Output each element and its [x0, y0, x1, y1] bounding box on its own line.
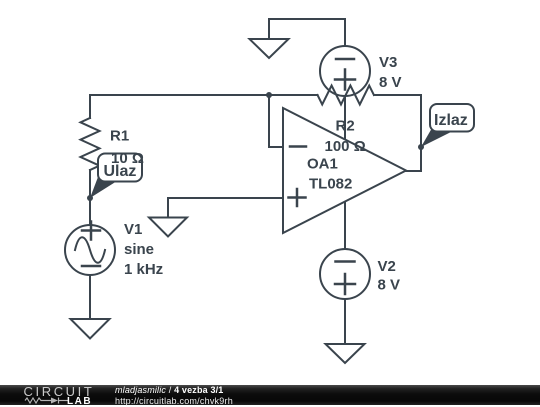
node Izlaz junction [418, 144, 424, 150]
CircuitLab logo [24, 384, 95, 399]
flag Ulaz [90, 154, 142, 199]
flag Izlaz [421, 104, 474, 147]
wire inverting input [269, 95, 283, 147]
voltage source V3 [320, 46, 370, 96]
wire V2 bottom lead [344, 299, 346, 343]
svg-text:V2: V2 [378, 258, 396, 275]
wire R1 top lead [89, 95, 91, 118]
svg-text:8 V: 8 V [378, 277, 401, 294]
wire op-amp V- to V2 [344, 202, 346, 249]
wire top-ground drop [268, 19, 270, 39]
voltage source V2 [320, 249, 370, 299]
ground (below V1) [71, 319, 110, 339]
ground (non-inverting input) [149, 218, 187, 237]
svg-text:10 Ω: 10 Ω [111, 150, 144, 167]
wire non-inverting input [168, 198, 283, 217]
wire top rail [269, 18, 345, 20]
svg-text:sine: sine [124, 241, 154, 258]
svg-text:Izlaz: Izlaz [434, 112, 468, 129]
ground (top, op-amp bias) [250, 39, 289, 58]
svg-text:TL082: TL082 [309, 176, 352, 193]
svg-text:R1: R1 [110, 128, 129, 145]
footer bar [0, 385, 540, 406]
wire output branch [406, 95, 421, 171]
wire V3 to op-amp V+ pin [344, 96, 346, 139]
wire V1 bottom lead [89, 275, 91, 318]
resistor R2 [318, 86, 374, 105]
ground (below V2) [326, 344, 365, 363]
wire V3 top lead [344, 19, 346, 46]
wire R1 bottom lead [89, 170, 91, 225]
resistor R1 [81, 118, 100, 170]
svg-text:V3: V3 [379, 54, 397, 71]
svg-text:OA1: OA1 [307, 156, 338, 173]
wire R2 right lead [374, 94, 421, 96]
svg-text:V1: V1 [124, 221, 142, 238]
svg-text:8 V: 8 V [379, 74, 402, 91]
node Ulaz junction [87, 195, 93, 201]
voltage source V1 [65, 225, 115, 275]
op-amp OA1 [283, 108, 406, 233]
wire feedback rail [90, 94, 318, 96]
node feedback junction [266, 92, 272, 98]
svg-text:100 Ω: 100 Ω [325, 138, 366, 155]
svg-text:R2: R2 [336, 118, 355, 135]
svg-text:1 kHz: 1 kHz [124, 261, 163, 278]
